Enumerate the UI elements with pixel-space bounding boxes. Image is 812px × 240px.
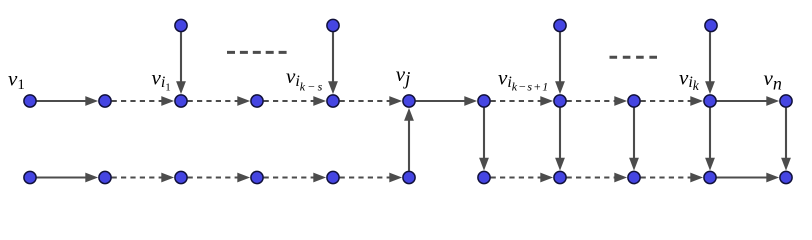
- svg-text:vj: vj: [396, 62, 411, 90]
- node bottom x634: [628, 171, 640, 183]
- node top x560: [554, 95, 566, 107]
- wire bottom 9: [717, 173, 780, 183]
- wire bottom 6: [491, 173, 553, 183]
- wire bottom 1: [112, 173, 175, 183]
- node bottom x484: [478, 171, 490, 183]
- wire top 3: [264, 96, 327, 106]
- node top x710: [704, 95, 716, 107]
- wire bottom 0: [37, 173, 99, 183]
- node bottom x30: [24, 171, 36, 183]
- node bottom x181: [175, 171, 187, 183]
- wire top 4: [340, 96, 403, 106]
- node stub x560: [554, 19, 566, 31]
- wire stub x710: [705, 32, 715, 94]
- wire stub x181: [176, 32, 186, 94]
- svg-text:vik−s: vik−s: [286, 64, 323, 94]
- node bottom x409: [403, 171, 415, 183]
- wire top 6: [491, 96, 553, 106]
- wire top 1: [112, 96, 175, 106]
- wire v down x560: [555, 108, 565, 171]
- wire v down x786: [781, 108, 791, 171]
- wire stub x560: [555, 32, 565, 94]
- wire bottom 8: [641, 173, 704, 183]
- svg-text:vn: vn: [764, 66, 782, 94]
- node bottom x105: [99, 171, 111, 183]
- node bottom x710: [704, 171, 716, 183]
- node top x105: [99, 95, 111, 107]
- wire v down x710: [705, 108, 715, 171]
- wire v down x634: [629, 108, 639, 171]
- ellipsis right: [610, 56, 658, 59]
- wire top 0: [37, 96, 99, 106]
- node bottom x786: [780, 171, 792, 183]
- node top x484: [478, 95, 490, 107]
- wire top 9: [717, 96, 780, 106]
- node bottom x257: [251, 171, 263, 183]
- node top x30: [24, 95, 36, 107]
- wire bottom 3: [264, 173, 327, 183]
- node stub x333: [327, 19, 339, 31]
- node stub x181: [175, 19, 187, 31]
- wire stub x333: [328, 32, 338, 94]
- node top x333: [327, 95, 339, 107]
- wire top 5: [416, 96, 478, 106]
- svg-text:vik−s+1: vik−s+1: [498, 66, 548, 94]
- ellipsis left: [227, 51, 288, 54]
- wire top 2: [188, 96, 251, 106]
- wire v down x484: [479, 108, 489, 171]
- svg-text:vik: vik: [679, 66, 700, 94]
- node bottom x560: [554, 171, 566, 183]
- wire bottom 7: [567, 173, 628, 183]
- svg-text:vi1: vi1: [152, 66, 171, 94]
- node top x634: [628, 95, 640, 107]
- node top x181: [175, 95, 187, 107]
- svg-text:v1: v1: [8, 67, 25, 94]
- node top x257: [251, 95, 263, 107]
- node stub x711: [705, 19, 717, 31]
- wire bottom 4: [340, 173, 403, 183]
- wire bottom 2: [188, 173, 251, 183]
- node top x409: [403, 95, 415, 107]
- node bottom x333: [327, 171, 339, 183]
- node top x786: [780, 95, 792, 107]
- wire v up into vj: [404, 108, 414, 171]
- wire top 8: [641, 96, 704, 106]
- wire top 7: [567, 96, 628, 106]
